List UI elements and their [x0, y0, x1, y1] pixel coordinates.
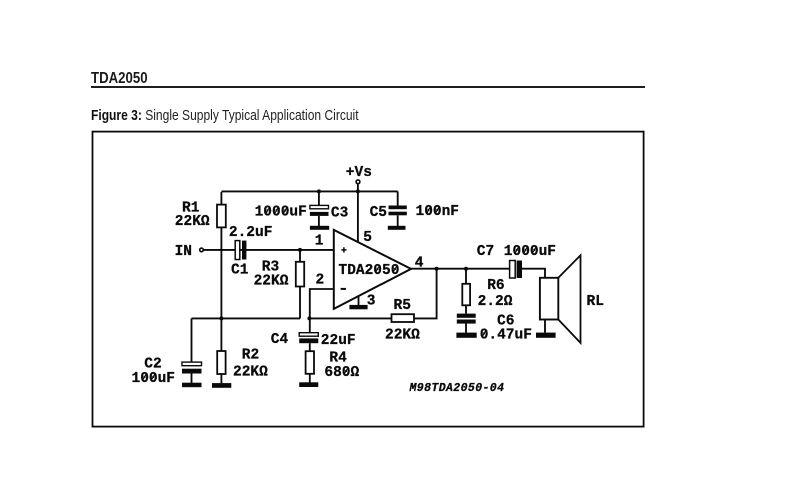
svg-text:100uF: 100uF [132, 371, 176, 387]
svg-text:0.47uF: 0.47uF [480, 328, 532, 344]
pin 2 [316, 273, 325, 289]
label C1 value 2.2uF [229, 225, 273, 241]
ground pin 3 [349, 305, 367, 309]
svg-text:2.2uF: 2.2uF [229, 225, 273, 241]
slashed zeros (plotter font style) [143, 207, 536, 380]
label C2 value 100uF [132, 371, 176, 387]
resistor R6 [462, 284, 470, 306]
label +Vs [346, 165, 372, 181]
label R4 [329, 351, 347, 367]
svg-text:R5: R5 [394, 298, 411, 314]
svg-text:22KΩ: 22KΩ [254, 274, 289, 290]
label C4 value 22uF [321, 333, 356, 349]
ground under R2 [212, 383, 231, 388]
label R3 [262, 259, 279, 275]
label C6 [497, 313, 514, 329]
wire R2 bottom lead [220, 374, 222, 383]
wire RL bottom lead [544, 320, 546, 333]
junction bias node [219, 316, 223, 320]
wire C3 bottom lead [318, 216, 320, 226]
op-amp plus input mark [341, 247, 346, 252]
label R1 [182, 201, 200, 217]
pin 1 [315, 233, 324, 249]
junction C3 rail [317, 189, 321, 193]
speaker RL driver box [540, 278, 558, 320]
wire R1 bottom lead through to R2 [220, 227, 222, 351]
label C6 value 0.47uF [480, 328, 532, 344]
label C7 [477, 244, 494, 260]
wire C6 bottom lead [465, 324, 467, 333]
svg-text:1: 1 [315, 233, 324, 249]
svg-text:R6: R6 [487, 278, 504, 294]
input terminal IN [200, 248, 204, 252]
svg-text:TDA2050: TDA2050 [339, 263, 400, 279]
wire input signal to pin 1 [204, 249, 334, 251]
label R1 value 22KΩ [175, 214, 210, 230]
capacitor C6 plates [457, 314, 476, 324]
wire R6 top lead [465, 269, 467, 284]
label R5 value 22KΩ [385, 328, 420, 344]
svg-text:C3: C3 [331, 205, 348, 221]
svg-text:C1: C1 [231, 263, 249, 279]
svg-text:22KΩ: 22KΩ [233, 365, 268, 381]
svg-text:1000uF: 1000uF [504, 244, 556, 260]
svg-text:M98TDA2050-04: M98TDA2050-04 [409, 382, 505, 395]
svg-text:2.2Ω: 2.2Ω [478, 294, 513, 310]
svg-text:22KΩ: 22KΩ [175, 214, 210, 230]
resistor R2 [217, 351, 225, 374]
svg-text:R2: R2 [242, 348, 259, 364]
svg-text:4: 4 [415, 255, 424, 271]
wire C5 top lead [397, 191, 399, 205]
wire R6 to C6 [465, 305, 467, 313]
wire bias node rail [192, 317, 301, 319]
svg-text:680Ω: 680Ω [324, 365, 359, 381]
wire C3 top lead [318, 191, 320, 205]
junction feedback node [307, 316, 311, 320]
svg-text:C5: C5 [370, 205, 387, 221]
label C4 [271, 332, 289, 348]
supply terminal +Vs [356, 180, 360, 184]
svg-text:C4: C4 [271, 332, 289, 348]
page title TDA2050 [91, 70, 148, 88]
svg-text:C7: C7 [477, 244, 494, 260]
label C3 [331, 205, 348, 221]
capacitor C5 plates [389, 206, 407, 216]
junction +Vs rail [356, 189, 360, 193]
resistor R4 [306, 351, 314, 374]
label IN [175, 244, 192, 260]
wire R3 top lead [299, 250, 301, 262]
resistor R5 [392, 314, 415, 322]
junction output R5 [435, 267, 439, 271]
wire C7 to speaker [522, 269, 545, 278]
wire output node [411, 268, 510, 270]
label C5 [370, 205, 387, 221]
capacitor C2 plates [182, 362, 202, 373]
wire C2 top lead [191, 318, 193, 362]
figure caption [91, 107, 359, 124]
label R5 [394, 298, 411, 314]
op-amp minus input mark [341, 288, 346, 290]
capacitor C7 plates [510, 261, 522, 279]
svg-text:+Vs: +Vs [346, 165, 372, 181]
wire +Vs to pin 5 [357, 184, 359, 242]
svg-text:1000uF: 1000uF [255, 205, 307, 221]
label C7 value 1000uF [504, 244, 556, 260]
ground under RL [536, 333, 556, 338]
op-amp U1 TDA2050 [334, 230, 411, 309]
wire R4 bottom lead [309, 374, 311, 383]
label R6 [487, 278, 504, 294]
wire supply rail [221, 190, 397, 192]
svg-text:22uF: 22uF [321, 333, 356, 349]
svg-text:100nF: 100nF [416, 204, 460, 220]
ground under C2 [182, 383, 202, 388]
svg-text:3: 3 [367, 294, 376, 310]
svg-text:RL: RL [587, 294, 604, 310]
ground under C3 [310, 226, 329, 230]
pin 3 [367, 294, 376, 310]
drawing number M98TDA2050-04 [409, 382, 505, 395]
label C2 [144, 357, 161, 373]
pin 4 [415, 255, 424, 271]
ground under C5 [388, 226, 406, 230]
label R2 value 22KΩ [233, 365, 268, 381]
svg-text:2: 2 [316, 273, 325, 289]
label RL [587, 294, 604, 310]
wire pin 3 to ground [358, 296, 360, 305]
capacitor C4 plates [299, 333, 318, 343]
capacitor C1 plates [235, 241, 246, 260]
resistor R1 [217, 205, 226, 228]
junction R3 input [298, 248, 302, 252]
svg-text:IN: IN [175, 244, 192, 260]
wire C4 to R4 [309, 343, 311, 351]
label C1 [231, 263, 249, 279]
speaker cone [558, 255, 580, 343]
wire R3 bottom lead [299, 287, 301, 319]
label R2 [242, 348, 259, 364]
resistor R3 [296, 262, 304, 287]
junction output R6 [464, 267, 468, 271]
capacitor C3 plates [310, 205, 329, 216]
label R3 value 22KΩ [254, 274, 289, 290]
label R6 value 2.2Ω [478, 294, 513, 310]
ground under R4 [299, 382, 318, 387]
label TDA2050 [339, 263, 400, 279]
wire R1 top lead [220, 192, 222, 205]
pin 5 [363, 230, 372, 246]
wire feedback rail through R5 to output [309, 269, 437, 319]
wire C5 bottom lead [397, 215, 399, 226]
svg-text:22KΩ: 22KΩ [385, 328, 420, 344]
wire C4 top lead [309, 318, 311, 332]
ground under C6 [456, 333, 476, 338]
wire pin 2 to feedback node [310, 289, 334, 318]
label R4 value 680Ω [324, 365, 359, 381]
wire C2 bottom lead [191, 374, 193, 384]
label C3 value 1000uF [255, 205, 307, 221]
svg-text:5: 5 [363, 230, 372, 246]
label C5 value 100nF [416, 204, 460, 220]
